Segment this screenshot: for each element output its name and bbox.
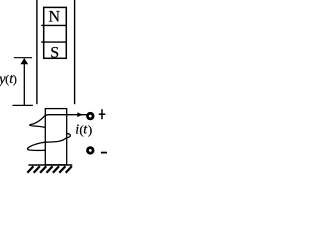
current arrowhead i(t) (77, 112, 83, 117)
magnet divider lower (41, 41, 67, 43)
terminal upper (+) (88, 113, 94, 119)
dimension shaft (23, 59, 25, 106)
wire left guide rail (36, 0, 38, 104)
svg-text:N: N (49, 8, 61, 25)
magnet body outline (44, 7, 67, 58)
ground hatching (27, 166, 72, 173)
dimension bottom tick (13, 104, 33, 106)
dimension arrowhead up (20, 58, 28, 64)
ground line (28, 164, 72, 166)
coil winding (30, 115, 87, 128)
coil core box (45, 109, 66, 165)
svg-text:i(t): i(t) (75, 122, 92, 138)
label minus (101, 152, 108, 154)
label + (99, 109, 106, 119)
magnet divider upper (41, 24, 67, 26)
coil winding rear turn emerging at right (27, 133, 70, 150)
terminal lower (-) (88, 148, 94, 154)
svg-text:y(t): y(t) (0, 71, 17, 87)
svg-text:S: S (50, 44, 59, 61)
dimension top tick (14, 57, 32, 59)
wire right guide rail (74, 0, 76, 104)
